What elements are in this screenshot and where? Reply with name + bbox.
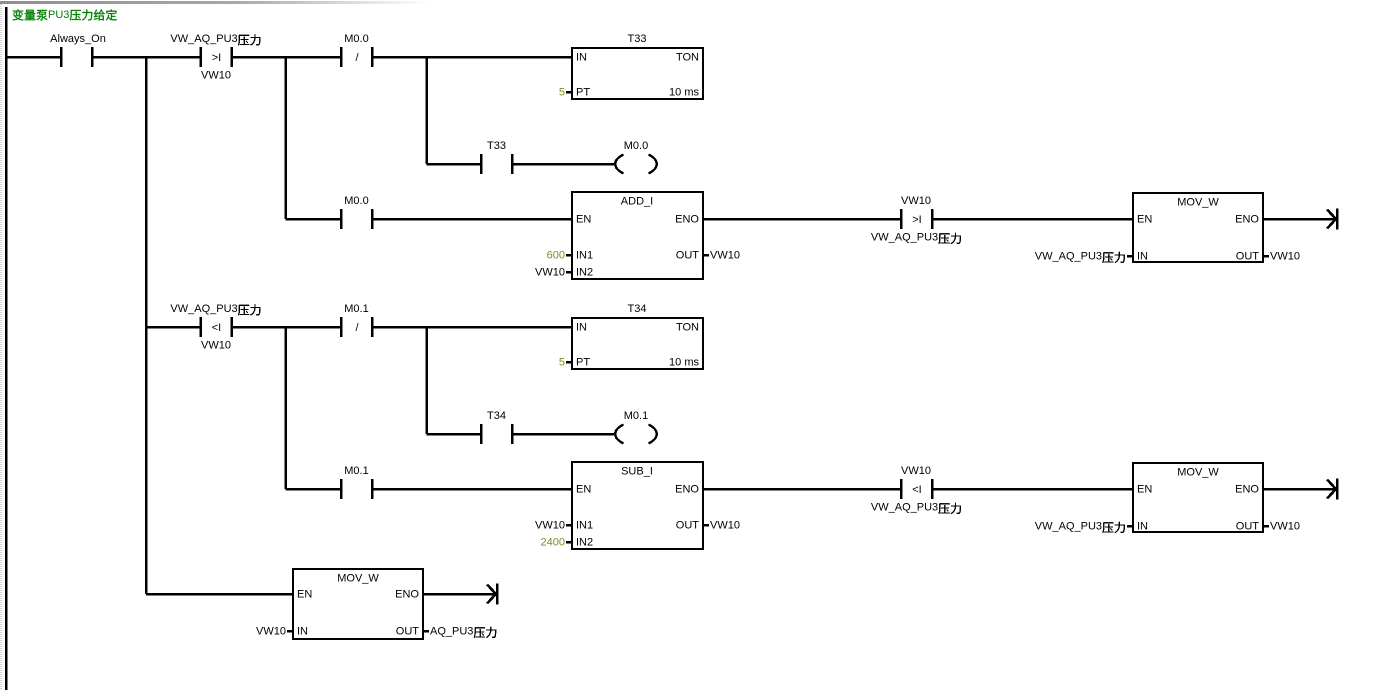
svg-text:VW10: VW10	[535, 520, 565, 532]
svg-text:M0.0: M0.0	[624, 140, 648, 152]
wire rung1 rail to Always_On	[7, 56, 61, 59]
svg-text:<I: <I	[912, 484, 921, 496]
wire rung6 branch to M0.1 contact	[286, 488, 342, 491]
svg-text:T34: T34	[628, 303, 647, 315]
wire rung7 branch to MOV_W box	[146, 593, 293, 596]
svg-text:>I: >I	[212, 52, 221, 64]
contact M0.0	[341, 195, 372, 229]
junction branch at x426 lower	[425, 327, 428, 434]
svg-text:TON: TON	[676, 52, 699, 64]
svg-text:ENO: ENO	[1235, 214, 1259, 226]
svg-text:OUT: OUT	[1236, 521, 1260, 533]
wire rung7 MOV_W ENO to arrow	[423, 593, 496, 596]
compare contact VW_AQ_PU3压力 <I VW10	[170, 303, 260, 352]
compare contact VW10 <I VW_AQ_PU3压力	[871, 465, 961, 514]
svg-text:OUT: OUT	[396, 626, 420, 638]
svg-text:MOV_W: MOV_W	[337, 573, 379, 585]
timer box T34 TON	[572, 303, 703, 369]
svg-text:600: 600	[547, 250, 565, 262]
junction branch at x146	[145, 57, 148, 594]
svg-text:VW10: VW10	[201, 340, 231, 352]
svg-text:VW10: VW10	[710, 520, 740, 532]
svg-text:AQ_PU3: AQ_PU3	[430, 626, 473, 638]
svg-text:IN1: IN1	[576, 250, 593, 262]
wire rung1 M0.0 to T33 box	[372, 56, 572, 59]
svg-text:<I: <I	[212, 322, 221, 334]
svg-text:M0.1: M0.1	[344, 465, 368, 477]
wire rung4 M0.1 to T34 box	[372, 326, 572, 329]
contact Always_On	[50, 33, 106, 67]
pin OUT value VW10	[1263, 251, 1300, 263]
wire rung3 ADD_I ENO to compare	[703, 218, 901, 221]
wire rung3 M0.0 to ADD_I box	[372, 218, 572, 221]
svg-text:MOV_W: MOV_W	[1177, 467, 1219, 479]
wire rung6 compare to MOV_W box	[932, 488, 1133, 491]
svg-text:T33: T33	[628, 33, 647, 45]
junction branch at x426 upper	[425, 57, 428, 164]
svg-text:>I: >I	[912, 214, 921, 226]
compare contact VW_AQ_PU3压力 >I VW10	[170, 33, 260, 82]
svg-text:OUT: OUT	[676, 520, 700, 532]
compare contact VW10 >I VW_AQ_PU3压力	[871, 195, 961, 244]
open wire arrow rung6	[1327, 479, 1337, 500]
wire rung3 compare to MOV_W box	[932, 218, 1133, 221]
timer box T33 TON	[572, 33, 703, 99]
wire rung6 MOV_W ENO to arrow	[1263, 488, 1336, 491]
open wire arrow rung7	[487, 584, 497, 605]
svg-text:VW_AQ_PU3: VW_AQ_PU3	[170, 33, 237, 45]
svg-text:MOV_W: MOV_W	[1177, 197, 1219, 209]
svg-text:ENO: ENO	[675, 214, 699, 226]
svg-text:IN2: IN2	[576, 267, 593, 279]
wire rung5 T34 to coil M0.1	[512, 433, 615, 436]
function box SUB_I	[572, 462, 703, 549]
svg-text:EN: EN	[576, 214, 591, 226]
wire rung4 branch to compare	[146, 326, 201, 329]
svg-text:VW_AQ_PU3: VW_AQ_PU3	[170, 303, 237, 315]
contact M0.1 NC	[341, 303, 372, 337]
coil M0.0	[615, 140, 657, 174]
svg-text:EN: EN	[576, 484, 591, 496]
svg-text:IN1: IN1	[576, 520, 593, 532]
svg-text:ENO: ENO	[395, 589, 419, 601]
network title 变量泵PU3压力给定	[13, 9, 117, 21]
svg-text:PT: PT	[576, 87, 590, 99]
svg-text:VW_AQ_PU3: VW_AQ_PU3	[1035, 251, 1102, 263]
wire rung4 compare to M0.1 contact	[232, 326, 342, 329]
wire rung2 branch to T33 contact	[427, 163, 482, 166]
function box MOV_W rung3	[1133, 193, 1263, 263]
svg-text:M0.1: M0.1	[624, 410, 648, 422]
contact T34	[481, 410, 512, 444]
svg-text:EN: EN	[297, 589, 312, 601]
wire rung5 branch to T34 contact	[427, 433, 482, 436]
svg-text:IN2: IN2	[576, 537, 593, 549]
svg-text:5: 5	[559, 357, 565, 369]
svg-text:ENO: ENO	[1235, 484, 1259, 496]
pin OUT value VW10	[703, 520, 740, 532]
svg-text:/: /	[355, 322, 359, 334]
svg-text:VW10: VW10	[901, 195, 931, 207]
svg-text:SUB_I: SUB_I	[621, 466, 653, 478]
wire rung6 M0.1 to SUB_I box	[372, 488, 572, 491]
coil M0.1	[615, 410, 657, 444]
svg-text:VW10: VW10	[201, 70, 231, 82]
svg-text:EN: EN	[1137, 484, 1152, 496]
svg-text:EN: EN	[1137, 214, 1152, 226]
function box MOV_W rung7	[293, 569, 423, 639]
pin IN1 value 600	[547, 250, 572, 262]
svg-text:VW10: VW10	[1270, 251, 1300, 263]
svg-text:2400: 2400	[541, 537, 565, 549]
svg-text:Always_On: Always_On	[50, 33, 106, 45]
wire rung3 branch to M0.0 contact	[286, 218, 342, 221]
svg-text:T33: T33	[487, 140, 506, 152]
svg-text:VW_AQ_PU3: VW_AQ_PU3	[871, 502, 938, 514]
contact T33	[481, 140, 512, 174]
svg-text:M0.0: M0.0	[344, 33, 368, 45]
wire rung2 T33 to coil M0.0	[512, 163, 615, 166]
svg-text:10 ms: 10 ms	[669, 357, 699, 369]
junction branch at x285 lower	[284, 327, 287, 489]
contact M0.0 NC	[341, 33, 372, 67]
svg-text:VW10: VW10	[710, 250, 740, 262]
svg-text:VW10: VW10	[901, 465, 931, 477]
power rail	[5, 7, 8, 690]
svg-text:VW_AQ_PU3: VW_AQ_PU3	[1035, 521, 1102, 533]
wire rung3 MOV_W ENO to arrow	[1263, 218, 1336, 221]
svg-text:PT: PT	[576, 357, 590, 369]
svg-text:5: 5	[559, 87, 565, 99]
junction branch at x285 upper	[284, 57, 287, 219]
wire rung1 Always_On to compare	[92, 56, 201, 59]
pin PT value 5	[559, 357, 572, 369]
svg-text:PU3: PU3	[48, 9, 69, 21]
function box ADD_I	[572, 192, 703, 279]
svg-text:ADD_I: ADD_I	[621, 196, 653, 208]
pin PT value 5	[559, 87, 572, 99]
pin OUT value VW10	[703, 250, 740, 262]
svg-text:ENO: ENO	[675, 484, 699, 496]
svg-text:IN: IN	[576, 322, 587, 334]
pin OUT value AQ_PU3压力	[423, 626, 496, 639]
svg-text:M0.1: M0.1	[344, 303, 368, 315]
pin IN value VW_AQ_PU3压力	[1035, 251, 1133, 264]
svg-text:IN: IN	[1137, 521, 1148, 533]
svg-text:T34: T34	[487, 410, 506, 422]
wire rung1 compare to M0.0 contact	[232, 56, 342, 59]
wire rung6 SUB_I ENO to compare	[703, 488, 901, 491]
svg-text:M0.0: M0.0	[344, 195, 368, 207]
svg-text:OUT: OUT	[1236, 251, 1260, 263]
svg-text:IN: IN	[576, 52, 587, 64]
pin IN1 value VW10	[535, 520, 572, 532]
svg-text:VW10: VW10	[535, 267, 565, 279]
pin IN value VW10	[256, 626, 293, 638]
pin IN2 value VW10	[535, 267, 572, 279]
contact M0.1	[341, 465, 372, 499]
svg-text:VW10: VW10	[256, 626, 286, 638]
svg-text:IN: IN	[297, 626, 308, 638]
svg-text:TON: TON	[676, 322, 699, 334]
pin IN2 value 2400	[541, 537, 572, 549]
svg-text:OUT: OUT	[676, 250, 700, 262]
svg-text:IN: IN	[1137, 251, 1148, 263]
pin IN value VW_AQ_PU3压力	[1035, 521, 1133, 534]
pin OUT value VW10	[1263, 521, 1300, 533]
open wire arrow rung3	[1327, 209, 1337, 230]
svg-text:VW_AQ_PU3: VW_AQ_PU3	[871, 232, 938, 244]
svg-text:VW10: VW10	[1270, 521, 1300, 533]
function box MOV_W rung6	[1133, 463, 1263, 533]
svg-text:10 ms: 10 ms	[669, 87, 699, 99]
svg-text:/: /	[355, 52, 359, 64]
